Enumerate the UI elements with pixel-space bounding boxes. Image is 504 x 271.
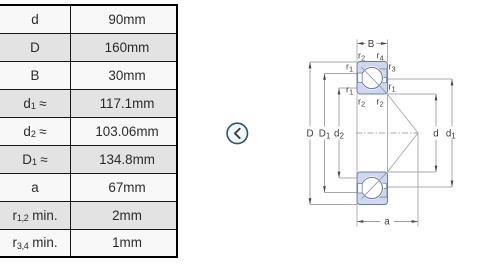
dimension B line xyxy=(363,43,382,45)
wire: left extension lines xyxy=(310,62,357,205)
svg-text:r4: r4 xyxy=(377,51,384,63)
wire: contact angle line upper outside xyxy=(387,94,418,133)
dimension D line xyxy=(309,62,311,205)
arrowheads d1 xyxy=(451,79,454,85)
arrowheads D1 xyxy=(323,74,326,80)
dimension a line xyxy=(357,221,418,223)
arrowheads d2 xyxy=(338,88,341,94)
svg-text:r3: r3 xyxy=(389,62,396,74)
svg-text:d: d xyxy=(433,129,438,140)
spec table xyxy=(0,4,178,258)
wire: a right extension from pressure center xyxy=(417,133,419,227)
svg-text:r2: r2 xyxy=(377,97,384,109)
back chevron button xyxy=(225,121,250,146)
wire: contact angle line lower outside xyxy=(387,133,418,172)
wire: vertical side face lines between half sections xyxy=(357,94,388,227)
svg-text:r2: r2 xyxy=(358,97,365,109)
svg-text:D1: D1 xyxy=(319,129,331,141)
svg-text:d1: d1 xyxy=(446,129,456,141)
dimension d line xyxy=(435,94,437,172)
dimension d2 line xyxy=(338,88,340,178)
arrowheads D xyxy=(309,62,312,68)
arrowheads B xyxy=(357,42,363,45)
wire: B right extension line xyxy=(387,40,389,62)
svg-text:r1: r1 xyxy=(346,85,353,97)
wire: right extension lines xyxy=(388,79,453,187)
wire: B left extension line xyxy=(356,40,358,62)
svg-text:r1: r1 xyxy=(346,62,353,74)
svg-text:r1: r1 xyxy=(389,82,396,94)
svg-text:d2: d2 xyxy=(334,129,344,141)
bearing top half section xyxy=(357,62,388,95)
wire: centerline axis xyxy=(356,132,418,134)
bearing bottom half section (mirror) xyxy=(357,172,388,205)
svg-text:B: B xyxy=(368,39,375,50)
dimension D1 line xyxy=(324,74,326,193)
svg-text:D: D xyxy=(306,129,313,140)
arrowheads d xyxy=(435,94,438,100)
dimension d1 line xyxy=(451,79,453,187)
svg-text:a: a xyxy=(384,217,390,228)
arrowheads a xyxy=(357,220,363,223)
svg-text:r2: r2 xyxy=(358,51,365,63)
